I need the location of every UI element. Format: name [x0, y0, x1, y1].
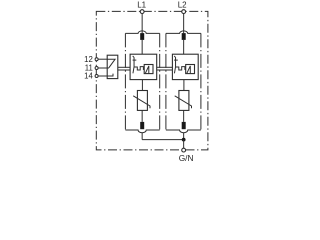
wire terminal 14 [98, 75, 107, 77]
wire to G/N terminal [183, 140, 185, 149]
mechanical link FM to U1 [118, 67, 130, 70]
svg-text:L1: L1 [137, 1, 146, 10]
terminal circle 14 [95, 75, 98, 78]
terminal G/N [182, 148, 186, 152]
monitoring box U1 [130, 54, 157, 79]
wire U2 to varistor [183, 80, 185, 91]
wire to bus [183, 133, 185, 140]
monitoring box U2 [172, 54, 198, 79]
thermal disconnector F1 top (black) [140, 33, 144, 40]
svg-text:12: 12 [84, 55, 93, 64]
U1 interior: disconnect blade [133, 56, 153, 74]
changeover contact [107, 59, 115, 76]
junction node [182, 138, 186, 142]
terminal L2 [182, 10, 186, 14]
wire L1 down [141, 14, 143, 34]
svg-text:14: 14 [84, 72, 93, 81]
U2 interior: disconnect blade [174, 56, 194, 74]
svg-text:G/N: G/N [179, 153, 194, 163]
varistor RV1 [133, 91, 150, 111]
wire varistor2 down [183, 110, 185, 122]
svg-text:L2: L2 [178, 1, 187, 10]
terminal circle 11 [95, 67, 98, 70]
module box 1 (dash-dot sides, solid top/bottom with arc bumps) [125, 31, 159, 133]
thermal disconnector F2 top (black) [182, 33, 186, 40]
terminal circle 12 [95, 58, 98, 61]
enclosure dash-dot border [96, 11, 208, 150]
wire varistor1 down [141, 110, 143, 122]
wire [141, 40, 143, 54]
wire terminal 11 [98, 67, 109, 69]
FM remote-signalling contact box [107, 55, 118, 78]
thermal disconnector F2 bottom (black) [182, 122, 186, 129]
varistor RV2 [175, 91, 192, 111]
wire [183, 40, 185, 54]
thermal disconnector F1 bottom (black) [140, 122, 144, 129]
wire U1 to varistor [141, 80, 143, 91]
wire L2 down [183, 14, 185, 34]
wire to bus [141, 133, 143, 140]
module box 2 [166, 31, 201, 133]
terminal L1 [140, 10, 144, 14]
wire terminal 12 [98, 58, 107, 60]
common bus wire [142, 139, 184, 141]
mechanical link U1 to U2 [157, 67, 173, 70]
